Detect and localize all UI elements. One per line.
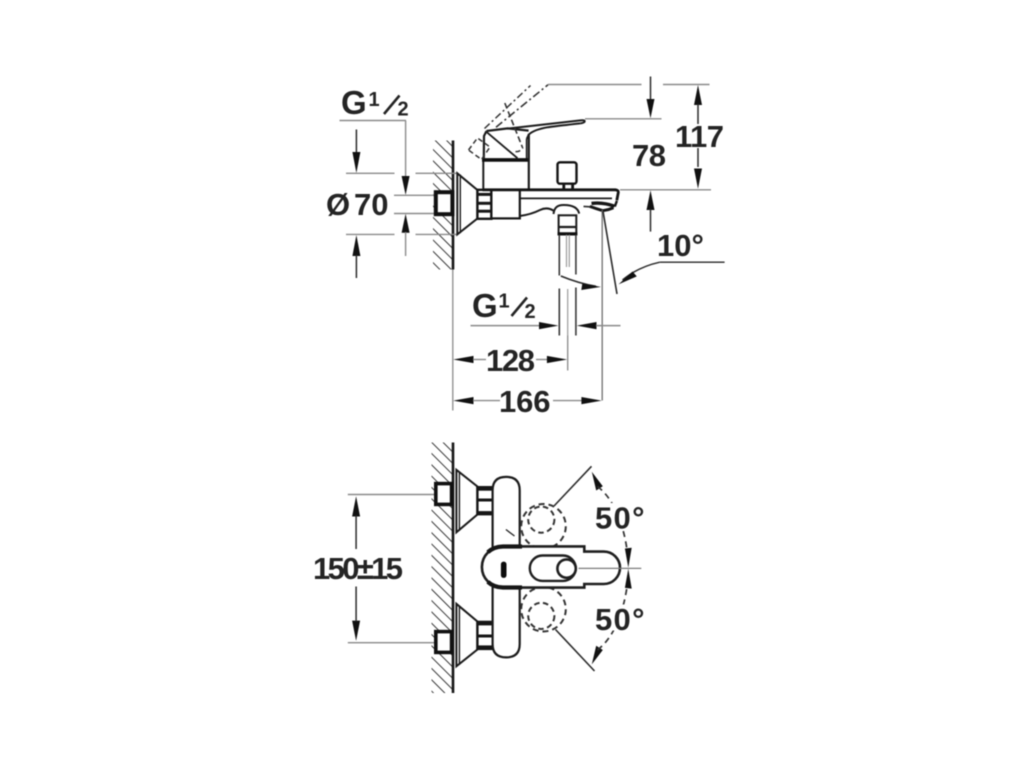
dim 166 [453,397,602,404]
lower 50deg diagonal line [556,630,595,672]
svg-text:50°: 50° [595,501,645,536]
spout level ext line y=189.8 [620,189,711,191]
svg-text:2: 2 [525,301,536,323]
upper 50deg arrow at centerline [625,548,632,568]
lever handle base [484,128,529,158]
cartridge tower [482,134,530,190]
lever arm [508,120,585,128]
handle circle button [557,559,575,577]
lower mount square nut [436,632,452,653]
handle inner slot [530,556,576,581]
dia70 top arrow with stem [355,130,357,154]
lower cone inner flange [458,606,460,665]
spout lower line [520,197,612,199]
dim 128 [453,356,567,363]
ext row C (pipe bottom, y=213.5) [394,213,435,215]
10 degree leader line [660,261,725,263]
dim 78 top arrow [647,77,655,119]
open position dashed base quad [469,138,491,160]
upper 50deg diagonal line [554,466,592,506]
G1/2 leader vertical [405,121,407,177]
svg-text:1: 1 [369,89,380,111]
open position steep dashed edge [505,103,523,148]
wall extension line down to 166 dim [452,270,454,411]
upper mount hex nut [477,487,492,514]
lower body capsule [493,587,520,657]
top ext line y=84.5 [548,84,710,86]
G1/2 label underline [340,120,407,122]
G1/2 arrow tail lower [405,232,407,256]
svg-text:150±15: 150±15 [313,551,403,586]
lower 50deg arrow at centerline [625,569,632,589]
upper 50deg arrow at diagonal [592,472,603,491]
wall hatching upper [433,141,452,270]
lower dashed rosette [521,587,566,632]
lower 50deg dashed arc [598,576,629,650]
escutcheon inner flange line [459,175,461,234]
wall face line upper [452,141,455,270]
svg-text:166: 166 [499,384,551,419]
upper body capsule [493,477,520,549]
svg-text:70: 70 [354,187,388,222]
svg-text:G: G [472,287,498,324]
lever top ext line y=118.8 [585,118,662,120]
150 dim top ext line [348,494,435,496]
10 degree slanted spray line [603,211,617,294]
body underside curve to shower hump [520,208,554,216]
label G 1/2 (top left) [341,84,409,121]
handle pivot black mark [501,562,507,578]
white backing for 50deg labels [596,503,643,529]
dim 150+-15 arrows [352,496,360,641]
svg-text:Ø: Ø [326,187,350,222]
square wall nut upper view [436,192,453,214]
upper 50deg dashed arc [598,487,629,561]
dim 117 [694,85,702,189]
lower 50deg arrow at diagonal [592,646,603,665]
hand shower connector [558,215,578,234]
upper mount escutcheon cone [456,470,477,533]
spout outlet [584,201,617,211]
10 degree left arc with arrow [561,276,601,290]
lower mount escutcheon cone [456,604,477,667]
svg-text:2: 2 [398,99,409,121]
wall hatching lower [432,443,453,694]
G1/2 lower dim line [471,322,621,329]
lower mount hex nut [477,622,492,649]
upper dashed rosette (shower holder position) [521,504,566,549]
wall face line lower [452,443,455,694]
escutcheon cone upper view [457,173,477,234]
150 dim bottom ext line [348,642,435,644]
10 degree right arc with arrow [619,262,660,284]
handle front view silhouette [482,546,620,587]
handle junction thick bottom [488,582,522,588]
svg-text:117: 117 [675,119,724,154]
dim 78 bottom arrow [647,190,655,231]
open position dashed cap [516,148,524,152]
svg-text:G: G [341,84,367,121]
upper capsule reflection line [506,530,515,537]
handle junction thick top [488,547,522,553]
faucet body block upper view [491,190,519,219]
ext row A (escutcheon top, y=173.3) [346,172,395,174]
svg-text:128: 128 [486,343,535,378]
ext row B (pipe top, y=195.3) [394,194,435,196]
upper cone inner flange [458,472,460,531]
dia70 bottom arrow with stem [352,235,360,256]
hex nut upper view [477,190,491,219]
open position dash-dot line [496,85,548,127]
G1/2 up arrow [402,214,410,233]
svg-text:50°: 50° [595,602,645,637]
svg-text:10°: 10° [657,228,704,263]
handle centerline [579,567,642,569]
shower hose lines [559,235,576,336]
hand shower hump [554,205,580,214]
G1/2 down arrow [402,176,410,195]
lever base inner diagonal [487,132,518,158]
diverter knob [558,162,577,189]
label dia 70 [326,187,388,222]
label G 1/2 (lower) [472,287,536,324]
128 extension line (hose center) [567,336,569,371]
spout top line [483,190,619,201]
upper mount square nut [436,484,452,505]
svg-text:1: 1 [499,291,510,313]
10 degree reference vertical [601,210,603,401]
ext row D (escutcheon bottom, y=234.4) [346,233,395,235]
svg-text:78: 78 [632,138,666,173]
